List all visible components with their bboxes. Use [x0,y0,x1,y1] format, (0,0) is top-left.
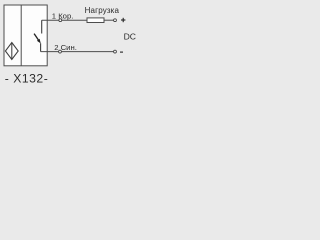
svg-text:- Х132-: - Х132- [5,72,48,86]
background [0,0,150,87]
wire pin2 (bottom) [41,51,59,53]
label - [120,51,123,53]
connector dot pin1 [59,19,62,22]
connector dot pin2 [59,50,62,53]
svg-text:1 Кор.: 1 Кор. [52,11,74,20]
terminal dot - [114,50,117,53]
wire to + terminal [104,19,114,21]
load resistor (Нагрузка) [87,18,104,23]
switch arrowhead [37,39,41,44]
svg-text:Нагрузка: Нагрузка [85,6,120,15]
compartment divider [20,5,22,66]
terminal dot + [114,19,117,22]
svg-text:DC: DC [124,31,136,41]
wire pin1 (top) [42,19,59,21]
proximity sensor symbol (diamond) [5,43,18,60]
wire to load [62,19,87,21]
svg-text:2 Син.: 2 Син. [54,43,77,52]
sensor body box BQ1 [4,5,47,66]
wire to - terminal [61,51,113,53]
output switch contact [34,20,42,51]
label + [121,18,125,22]
